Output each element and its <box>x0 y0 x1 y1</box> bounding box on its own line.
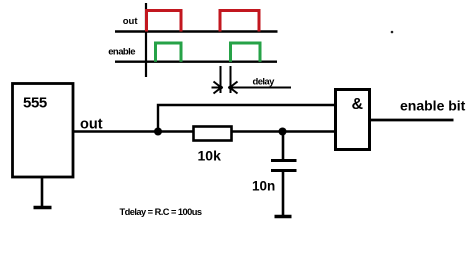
timing diagram vertical axis <box>145 3 147 77</box>
svg-text:10k: 10k <box>198 148 222 164</box>
wire capacitor down <box>282 171 285 215</box>
out waveform pulse 1 (red) <box>147 11 182 32</box>
delay tick right <box>230 66 232 93</box>
out waveform pulse 2 (red) <box>220 11 259 32</box>
ground <box>34 178 52 208</box>
svg-text:555: 555 <box>23 95 47 112</box>
delay tick left <box>220 66 222 93</box>
svg-text:&: & <box>352 96 364 113</box>
svg-text:delay: delay <box>253 77 276 88</box>
enable waveform pulse 1 (green) <box>156 43 182 62</box>
svg-text:out: out <box>80 117 103 133</box>
svg-text:10n: 10n <box>252 179 275 194</box>
resistor R1 10k <box>194 127 232 141</box>
capacitor bottom terminal bar <box>275 215 292 218</box>
wire junction 1 up to AND gate input A <box>158 105 334 132</box>
timing diagram enable axis <box>115 61 277 63</box>
wire junction 2 down to capacitor <box>282 132 285 161</box>
wire resistor to AND gate input B <box>232 130 335 133</box>
enable waveform pulse 2 (green) <box>231 43 261 62</box>
svg-text:enable bit: enable bit <box>400 98 466 114</box>
555 timer U1 <box>13 84 74 178</box>
AND gate U2 <box>336 90 370 150</box>
svg-text:enable: enable <box>108 47 135 58</box>
node junction 1 <box>154 128 162 136</box>
delay arrow left (points right) <box>212 82 223 94</box>
wire 555 output to resistor <box>74 130 194 133</box>
capacitor C1 10n <box>271 161 297 171</box>
wire AND gate output <box>371 119 454 122</box>
stray dot <box>391 31 394 34</box>
node junction 2 <box>279 128 287 136</box>
timing diagram out axis <box>115 30 278 32</box>
svg-text:Tdelay = R.C = 100us: Tdelay = R.C = 100us <box>120 207 202 217</box>
delay arrow right (points left) <box>229 82 292 94</box>
svg-text:out: out <box>123 16 139 27</box>
